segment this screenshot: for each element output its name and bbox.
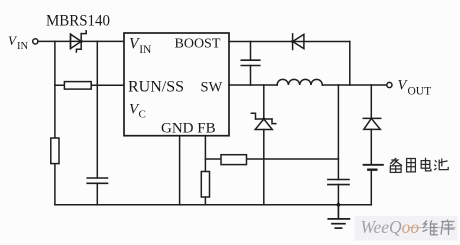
svg-text:BOOST: BOOST	[175, 36, 221, 51]
备	[390, 158, 402, 173]
svg-text:OUT: OUT	[408, 86, 432, 98]
capacitor C3 output branch wire	[337, 85, 339, 180]
node VIN terminal	[33, 39, 38, 44]
wire left branch vertical	[54, 41, 56, 204]
op-amp U1 IC box	[124, 33, 229, 136]
用	[407, 159, 416, 172]
wire ground rail bottom	[55, 204, 371, 206]
wire SW rail to VOUT	[322, 84, 386, 86]
capacitor C1	[87, 178, 107, 183]
wire corner down from boost rail	[349, 42, 351, 86]
resistor R3 vertical FB	[201, 172, 209, 198]
库	[441, 220, 455, 236]
wire FB node horizontal	[205, 158, 338, 160]
ground	[328, 205, 349, 228]
diode D4 zener branch wire	[263, 85, 265, 119]
svg-text:SW: SW	[201, 79, 223, 95]
node junction dot ground	[337, 203, 341, 207]
维	[423, 221, 439, 236]
svg-text:GND FB: GND FB	[161, 120, 216, 136]
diode D4 zener (points up)	[251, 113, 275, 129]
wire boost cap branch	[250, 42, 252, 61]
resistor R4 horizontal FB	[221, 155, 247, 165]
wire SW rail	[229, 84, 277, 86]
battery BT1 label 备用电池 (drawn strokes)	[390, 158, 448, 173]
watermark box	[354, 216, 457, 241]
capacitor C3	[328, 180, 349, 185]
wire VIN rail top	[38, 40, 124, 42]
inductor L1	[277, 79, 322, 85]
svg-text:MBRS140: MBRS140	[46, 13, 110, 30]
diode D3 (points up)	[363, 118, 380, 129]
wire FB pin	[204, 136, 206, 172]
diode D1 MBRS140 schottky	[71, 31, 87, 52]
svg-text:C: C	[139, 109, 146, 121]
watermark strike line	[408, 227, 456, 229]
wire right branch vertical (input cap line)	[96, 41, 98, 178]
svg-text:IN: IN	[17, 41, 28, 52]
wire RUN/SS	[55, 84, 124, 86]
resistor R1 vertical left	[51, 138, 59, 164]
resistor R2 horizontal RUN/SS	[64, 82, 91, 90]
capacitor C2 boost	[241, 60, 259, 65]
diode D3 battery branch wire	[370, 85, 372, 118]
wire GND pin	[179, 136, 181, 205]
svg-text:IN: IN	[139, 44, 152, 56]
wire battery to ground rail	[370, 170, 372, 205]
node VOUT terminal	[387, 82, 392, 87]
diode D2 on boost rail (points left)	[291, 34, 304, 50]
电	[421, 158, 431, 171]
watermark 维库 (drawn strokes)	[423, 220, 455, 236]
池	[434, 158, 448, 170]
battery BT1	[364, 165, 383, 170]
wire BOOST top	[229, 41, 350, 43]
svg-text:RUN/SS: RUN/SS	[128, 79, 184, 96]
